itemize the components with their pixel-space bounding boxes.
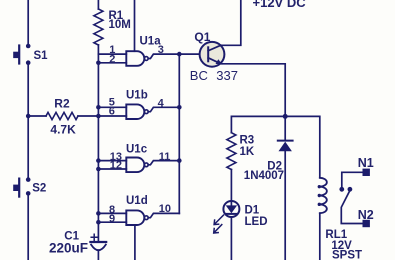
svg-text:LED: LED xyxy=(245,216,268,228)
node: U1a output junction xyxy=(177,52,182,57)
wire: U1a top feed xyxy=(134,0,136,51)
node: R2 tap junction xyxy=(26,114,31,119)
svg-text:S1: S1 xyxy=(34,50,49,62)
svg-text:10: 10 xyxy=(159,203,171,215)
svg-text:9: 9 xyxy=(109,213,115,225)
svg-text:12: 12 xyxy=(110,159,122,171)
node: pin12 junction xyxy=(96,167,101,172)
node: U1c output junction xyxy=(177,158,182,163)
svg-text:R2: R2 xyxy=(54,97,70,111)
wire: R3 to LED xyxy=(230,170,232,202)
wire: collector to +12V xyxy=(220,0,241,45)
NAND gate U1c xyxy=(98,144,179,173)
wire: input rail top stub xyxy=(97,0,99,9)
svg-text:N1: N1 xyxy=(358,156,374,170)
svg-text:6: 6 xyxy=(109,105,115,117)
svg-text:11: 11 xyxy=(159,151,171,163)
transistor Q1 xyxy=(190,30,238,83)
node: pin5 junction xyxy=(96,105,101,110)
node: pin6 junction xyxy=(96,114,101,119)
wire: left touch rail top xyxy=(27,0,29,45)
svg-text:D1: D1 xyxy=(245,205,260,217)
node: emitter node junction xyxy=(283,114,288,119)
svg-text:S2: S2 xyxy=(32,182,46,194)
svg-text:10M: 10M xyxy=(109,19,131,31)
NAND gate U1d xyxy=(98,195,179,225)
svg-text:1N4007: 1N4007 xyxy=(244,170,284,182)
svg-text:N2: N2 xyxy=(358,208,374,222)
svg-text:Q1: Q1 xyxy=(194,30,210,44)
svg-text:1K: 1K xyxy=(240,146,255,158)
LED D1 xyxy=(214,201,268,233)
wire: U1d bottom stub xyxy=(134,225,136,260)
wire: LED to bottom xyxy=(230,217,232,260)
svg-text:4: 4 xyxy=(158,97,165,109)
svg-text:220uF: 220uF xyxy=(49,241,88,256)
node: pin2 junction xyxy=(96,61,101,66)
wire: input rail xyxy=(97,45,99,242)
svg-text:337: 337 xyxy=(216,68,238,83)
capacitor C1 xyxy=(49,230,106,260)
relay contact N1 xyxy=(339,156,373,192)
wire: emitter run xyxy=(220,64,285,117)
svg-text:U1c: U1c xyxy=(126,144,148,156)
svg-text:+12V DC: +12V DC xyxy=(253,0,307,10)
svg-text:U1d: U1d xyxy=(126,195,148,207)
wire: left rail middle xyxy=(27,65,29,178)
relay armature xyxy=(341,187,362,224)
relay coil RL1 xyxy=(318,178,362,260)
resistor R3 xyxy=(227,133,255,170)
wire: left rail bottom xyxy=(27,196,29,260)
node: pin9 junction xyxy=(96,220,101,225)
diode D2 xyxy=(244,116,293,260)
NAND gate U1a xyxy=(98,36,179,66)
resistor R2 xyxy=(28,97,98,137)
node: U1b output junction xyxy=(177,105,182,110)
svg-text:SPST: SPST xyxy=(332,249,362,260)
svg-text:2: 2 xyxy=(109,53,115,65)
wire: output rail xyxy=(178,54,180,213)
svg-text:R3: R3 xyxy=(240,135,255,147)
relay contact N2 xyxy=(358,208,374,227)
resistor R1 xyxy=(94,9,131,45)
svg-text:U1b: U1b xyxy=(126,90,148,102)
svg-text:BC: BC xyxy=(190,68,208,83)
switch S2 xyxy=(13,177,46,196)
wire: node rail y116 xyxy=(231,116,319,177)
svg-text:4.7K: 4.7K xyxy=(50,123,76,137)
wire: base wire to Q1 xyxy=(179,53,200,55)
svg-text:3: 3 xyxy=(158,44,164,56)
switch S1 xyxy=(13,44,48,65)
NAND gate U1b xyxy=(98,90,179,120)
node: pin13 junction xyxy=(96,158,101,163)
node: pin8 junction xyxy=(96,211,101,216)
